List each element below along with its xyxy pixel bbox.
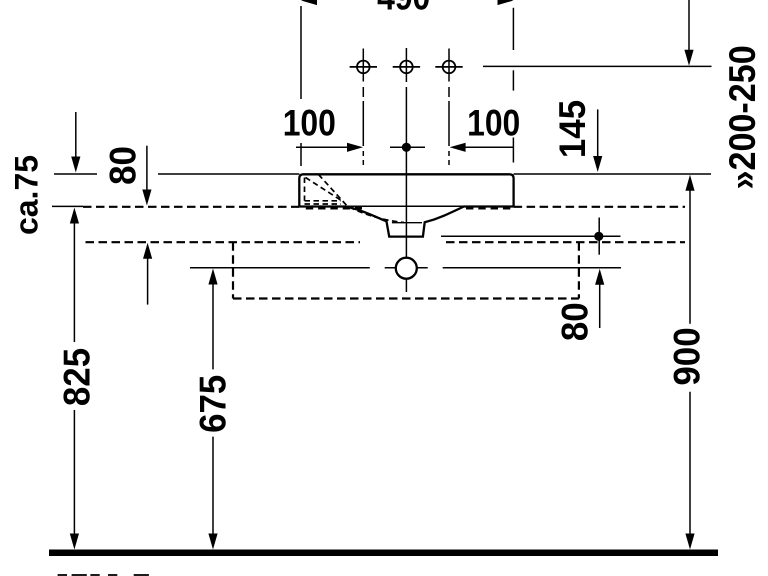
- svg-text:»200-250: »200-250: [722, 45, 764, 189]
- svg-text:ca.75: ca.75: [8, 155, 44, 235]
- svg-text:100: 100: [467, 102, 520, 144]
- svg-text:825: 825: [55, 348, 97, 406]
- svg-text:675: 675: [191, 375, 233, 433]
- svg-text:80: 80: [553, 302, 595, 341]
- svg-text:80: 80: [101, 146, 143, 185]
- svg-text:490: 490: [377, 0, 430, 18]
- svg-text:145: 145: [551, 100, 593, 158]
- svg-text:900: 900: [665, 327, 707, 385]
- svg-text:100: 100: [283, 102, 336, 144]
